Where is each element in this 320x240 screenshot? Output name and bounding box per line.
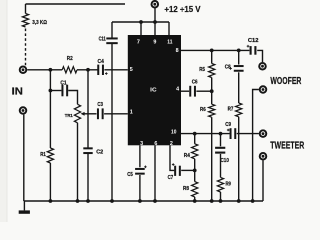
svg-text:3,3 KΩ: 3,3 KΩ	[32, 20, 47, 26]
svg-text:C2: C2	[96, 150, 103, 156]
resistor R5	[199, 64, 215, 78]
wire top-left horizontal	[26, 3, 126, 5]
wire node down to C2	[87, 70, 89, 148]
svg-text:R5: R5	[199, 67, 205, 73]
trimmer TR1	[65, 104, 81, 122]
svg-text:R8: R8	[183, 186, 189, 192]
svg-text:R9: R9	[226, 181, 231, 187]
dashed wire to IN	[25, 29, 27, 66]
svg-text:C1: C1	[60, 81, 66, 87]
wire TR1 to ground bus	[77, 123, 79, 201]
wire supply bus to C11	[111, 22, 113, 38]
wire C10 to R9	[220, 154, 222, 178]
wire pin8 node to R5	[211, 50, 213, 63]
svg-text:C7: C7	[168, 175, 174, 181]
capacitor C3	[97, 102, 104, 119]
svg-text:7: 7	[137, 40, 140, 46]
resistor R6	[200, 104, 215, 117]
node ground bus x211.7	[210, 199, 214, 203]
IC pin 10	[171, 130, 176, 136]
svg-text:R7: R7	[228, 107, 234, 113]
IC pin 1	[130, 110, 133, 116]
wire C1 to TR1	[68, 91, 77, 105]
wire C9 to tweeter	[237, 133, 259, 135]
wire ground drop	[23, 201, 25, 210]
svg-text:5: 5	[130, 67, 133, 73]
wire woofer- to ground bus	[253, 90, 259, 202]
wire C6 to node	[196, 90, 211, 92]
node C6 junction	[210, 89, 214, 93]
svg-text:TWEETER: TWEETER	[270, 141, 304, 152]
node C7 junction	[193, 169, 197, 173]
resistor R9	[217, 177, 230, 192]
op-amp IC body	[128, 35, 181, 145]
wire IN+ to R2	[27, 69, 62, 71]
wire IN- to ground bus	[23, 115, 25, 201]
wire R7 to ground bus	[238, 117, 240, 201]
terminal IN+	[19, 66, 28, 75]
capacitor C12	[247, 38, 259, 55]
IC pin 3	[140, 141, 143, 147]
svg-text:+12 ÷15 V: +12 ÷15 V	[164, 4, 200, 14]
wire C12 to woofer	[257, 50, 262, 62]
wire pin10 node to C10	[220, 134, 222, 147]
label TWEETER	[270, 141, 304, 152]
svg-text:1: 1	[130, 110, 133, 116]
wire R2 to C4	[77, 69, 98, 71]
terminal IN-	[19, 106, 28, 115]
wire pin10 node to R4	[194, 134, 196, 144]
wire pin 3 down	[139, 145, 141, 167]
wire C11 to ground bus	[111, 44, 113, 201]
ground	[19, 210, 30, 213]
capacitor C1	[60, 81, 68, 97]
node ground bus x77.5	[76, 199, 80, 203]
svg-text:R1: R1	[40, 152, 46, 158]
wire supply stem and pin 9 drop	[154, 8, 156, 35]
node C8 top	[237, 49, 241, 53]
capacitor C11	[99, 37, 118, 45]
node ground bus x112	[110, 199, 114, 203]
node ground bus x155	[153, 199, 157, 203]
svg-text:10: 10	[171, 130, 176, 136]
wire C2 to ground bus	[87, 153, 89, 201]
svg-text:R6: R6	[200, 107, 206, 113]
node ground bus x50.4	[49, 199, 53, 203]
node R2/C4/C2 junction	[86, 68, 90, 72]
svg-text:C6: C6	[192, 80, 198, 86]
IC pin 9	[153, 40, 156, 46]
wire R4 to C7 node	[194, 159, 196, 171]
resistor R4	[184, 144, 198, 159]
terminal TWEETER -	[259, 152, 268, 161]
capacitor C7	[168, 163, 181, 181]
IC name label	[150, 88, 157, 94]
capacitor C10	[215, 147, 230, 164]
resistor R2	[62, 56, 77, 73]
node ground bus x194.7	[193, 199, 197, 203]
capacitor C6	[189, 80, 197, 97]
capacitor C4	[97, 59, 107, 75]
label +12 ÷15 V	[164, 4, 200, 14]
svg-text:C4: C4	[98, 59, 105, 65]
svg-text:9: 9	[153, 40, 156, 46]
node pin9 drop	[153, 20, 157, 24]
svg-text:IN: IN	[12, 87, 23, 98]
label IN	[12, 87, 23, 98]
wire supply bus	[112, 21, 169, 23]
node R4 top	[193, 132, 197, 136]
svg-text:IC: IC	[150, 88, 157, 94]
TR1 wiper arrow	[81, 112, 86, 116]
IC pin 5	[130, 67, 133, 73]
wire pin 2 stub	[170, 145, 174, 170]
wire drop pin 11	[168, 22, 170, 35]
node pin7 drop	[139, 20, 143, 24]
wire ground bus	[24, 200, 263, 202]
svg-text:R4: R4	[184, 153, 191, 159]
capacitor C2	[83, 147, 103, 155]
wire R1 to ground bus	[49, 163, 51, 201]
node input junction	[49, 68, 53, 72]
IC pin 11	[167, 40, 172, 46]
capacitor C9	[225, 122, 236, 139]
svg-text:C10: C10	[221, 158, 229, 164]
terminal +12-15V supply	[151, 0, 160, 8]
resistor R8	[183, 182, 198, 197]
svg-text:C3: C3	[97, 102, 103, 108]
svg-text:WOOFER: WOOFER	[270, 76, 301, 87]
node ground bus x252.6	[251, 199, 255, 203]
capacitor C8	[225, 64, 244, 71]
label WOOFER	[270, 76, 301, 87]
wire node to C1	[50, 90, 61, 92]
resistor R7	[228, 103, 242, 117]
wire C7 node to R8	[194, 170, 196, 181]
wire C8 to R7	[238, 72, 240, 103]
wire input node down to R1	[49, 70, 51, 148]
node ground bus x88	[86, 199, 90, 203]
node ground bus x220.5	[219, 199, 223, 203]
wire R9 to ground bus	[220, 192, 222, 201]
node ground bus x139.9	[138, 199, 142, 203]
resistor R1	[40, 148, 53, 163]
resistor 3,3 KΩ	[22, 14, 47, 27]
wire tweeter- to ground bus	[262, 160, 264, 201]
wire C5 to ground bus	[139, 175, 141, 201]
svg-text:C11: C11	[99, 37, 106, 43]
wire 3.3k top stub	[25, 4, 27, 14]
wire C4 to pin 5	[104, 69, 127, 71]
wire drop pin 7	[140, 22, 142, 35]
wire R6 to ground bus	[211, 117, 213, 201]
node R5 top	[210, 49, 214, 53]
wire pin 8 rail	[181, 49, 249, 51]
node ground bus x238.7	[237, 199, 241, 203]
IC pin 4	[176, 87, 179, 93]
wire pin 4 to C6	[181, 90, 189, 92]
IC pin 6	[154, 141, 157, 147]
svg-text:R2: R2	[67, 56, 73, 62]
IC pin 8	[176, 48, 179, 54]
wire C7 to node	[181, 169, 195, 171]
node C10 top	[219, 132, 223, 136]
terminal TWEETER +	[259, 129, 268, 138]
wire R5 to R6	[211, 78, 213, 105]
capacitor C5	[127, 166, 147, 178]
IC pin 7	[137, 40, 140, 46]
svg-text:TR1: TR1	[65, 113, 73, 118]
wire pin8 node to C8	[238, 50, 240, 64]
wire pin 10 rail	[181, 133, 230, 135]
wire C3 to pin 1	[104, 113, 128, 115]
terminal WOOFER +	[258, 62, 267, 71]
svg-text:C12: C12	[248, 38, 259, 44]
wire arrow to C3	[86, 113, 97, 115]
svg-text:C8: C8	[225, 64, 231, 70]
IC pin 2	[170, 141, 173, 147]
node C1 tap	[49, 89, 53, 93]
svg-text:C5: C5	[127, 172, 133, 178]
svg-text:C9: C9	[225, 122, 231, 128]
svg-text:11: 11	[167, 40, 172, 46]
terminal WOOFER -	[259, 85, 268, 94]
svg-text:8: 8	[176, 48, 179, 54]
wire pin 6 to ground bus	[154, 145, 156, 201]
wire R8 to ground bus	[194, 197, 196, 201]
svg-text:4: 4	[176, 87, 179, 93]
